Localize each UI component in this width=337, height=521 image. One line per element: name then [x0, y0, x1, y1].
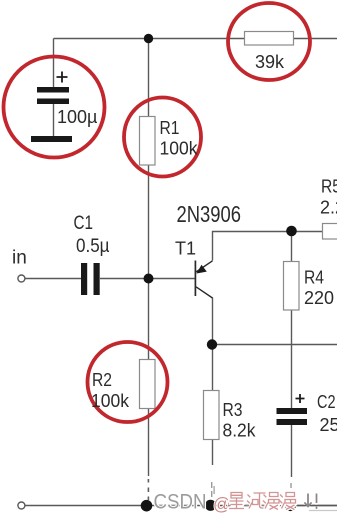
svg-text:8.2k: 8.2k — [223, 421, 257, 441]
svg-text:100k: 100k — [160, 139, 199, 159]
svg-text:2.2k: 2.2k — [320, 198, 337, 218]
svg-text:39k: 39k — [255, 52, 285, 72]
svg-text:in: in — [12, 248, 27, 269]
svg-text:R2: R2 — [92, 370, 112, 390]
svg-text:100k: 100k — [91, 391, 130, 411]
svg-text:0.5µ: 0.5µ — [76, 236, 110, 257]
svg-text:CSDN: CSDN — [154, 491, 207, 514]
svg-text:R4: R4 — [304, 268, 324, 288]
svg-text:2N3906: 2N3906 — [177, 201, 242, 227]
svg-text:R1: R1 — [160, 118, 180, 138]
svg-text:C2: C2 — [317, 392, 336, 412]
svg-text:C1: C1 — [74, 213, 94, 234]
svg-text:220: 220 — [304, 288, 334, 308]
svg-text:R5: R5 — [321, 177, 337, 197]
svg-text:@: @ — [213, 494, 231, 514]
svg-text:100µ: 100µ — [57, 107, 97, 127]
svg-text:25µ: 25µ — [320, 415, 337, 435]
svg-text:R3: R3 — [223, 400, 243, 420]
svg-text:T1: T1 — [175, 239, 196, 259]
